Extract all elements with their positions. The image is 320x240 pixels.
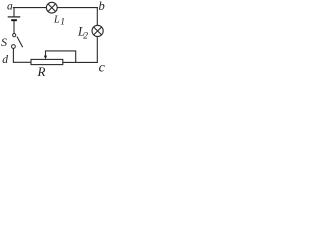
rheostat R box [31, 59, 63, 64]
wire battery up to node a [13, 7, 15, 16]
rheostat slider arrow [45, 51, 47, 56]
slider wire up and over to bottom wire [45, 51, 76, 63]
wire L2 down to c corner [96, 36, 98, 63]
svg-text:d: d [2, 54, 8, 66]
svg-text:S: S [1, 35, 7, 49]
svg-text:a: a [7, 0, 13, 12]
wire a to L1 [13, 7, 47, 9]
battery positive plate (long thin) [8, 16, 21, 18]
wire switch up to battery [13, 21, 15, 34]
bottom wire R to d [13, 61, 32, 63]
switch S bottom terminal [12, 45, 16, 49]
svg-text:b: b [99, 0, 105, 13]
lamp L2 [92, 25, 103, 36]
bottom wire c to R [63, 61, 98, 63]
lamp L1 [46, 2, 57, 13]
switch S top terminal [13, 34, 16, 37]
svg-text:R: R [37, 64, 46, 79]
svg-text:c: c [99, 61, 106, 76]
svg-text:2: 2 [83, 32, 88, 42]
svg-text:L: L [53, 14, 60, 26]
wire d up to switch [12, 48, 14, 63]
svg-text:1: 1 [60, 17, 65, 27]
wire b down to L2 [96, 7, 98, 25]
battery negative plate (short thick) [11, 19, 17, 21]
wire L1 to b [57, 7, 98, 9]
switch S lever [17, 37, 23, 48]
